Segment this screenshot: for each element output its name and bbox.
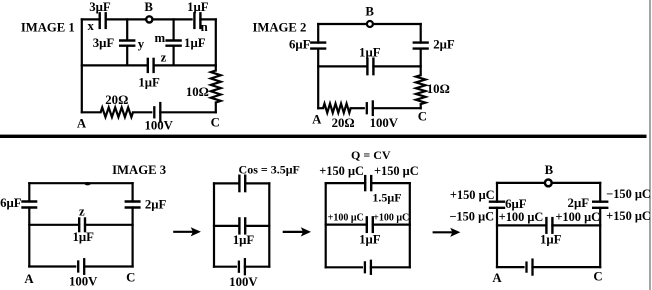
capacitor 6μF (C6 left rail) xyxy=(490,202,504,208)
svg-text:+100 μC: +100 μC xyxy=(499,210,544,224)
wire: I3 middle rail right segment xyxy=(85,224,133,226)
svg-text:Q = CV: Q = CV xyxy=(351,148,391,162)
svg-text:+150 μC: +150 μC xyxy=(319,164,364,178)
wire: I3 top rail xyxy=(29,182,132,184)
wire: I1 branch m lower segment xyxy=(173,46,175,66)
wire: C6 top rail right of node B xyxy=(552,182,600,184)
svg-text:B: B xyxy=(365,5,374,19)
wire: I3 bottom rail from battery to node C xyxy=(84,265,132,267)
capacitor y 3μF (I1 middle-left, horizontal plates) xyxy=(120,41,134,46)
capacitor x 3μF (I1 top-left) xyxy=(100,13,106,28)
svg-text:A: A xyxy=(24,272,34,286)
svg-text:−150 μC: −150 μC xyxy=(449,209,494,223)
wire: C5 bottom rail right segment xyxy=(371,266,410,268)
wire: I2 middle rail right segment xyxy=(373,65,420,67)
wire: C5 middle rail right segment xyxy=(373,224,410,226)
wire: C4 right rail xyxy=(268,183,270,266)
capacitor Cos 3.5μF (C4 top rail) xyxy=(239,176,245,191)
capacitor m 1μF (I1 middle-right, horizontal plates) xyxy=(167,41,181,46)
wire: I2 middle rail left segment xyxy=(318,65,367,67)
svg-text:2μF: 2μF xyxy=(145,197,167,211)
svg-text:C: C xyxy=(593,269,602,283)
wire: I3 right rail upper segment xyxy=(132,183,134,201)
svg-text:1μF: 1μF xyxy=(233,233,255,247)
svg-text:2μF: 2μF xyxy=(433,38,455,52)
svg-text:+150 μC: +150 μC xyxy=(450,188,495,202)
capacitor 1μF (C4 middle rail) xyxy=(239,218,245,233)
capacitor 2μF (C6 right rail) xyxy=(593,202,607,208)
wire: C4 middle rail left segment xyxy=(214,225,239,227)
svg-text:C: C xyxy=(126,270,135,284)
capacitor 2μF (I2 right rail) xyxy=(414,43,428,49)
capacitor z 1μF (I1 middle rail) xyxy=(148,59,154,72)
svg-text:100V: 100V xyxy=(144,118,173,132)
battery (C6 bottom rail) xyxy=(527,260,533,275)
resistor 10Ω (I1 right rail) xyxy=(211,71,221,103)
svg-text:C: C xyxy=(418,110,427,124)
wire: I2 right rail upper segment xyxy=(420,24,422,43)
wire: C4 middle rail right segment xyxy=(245,225,269,227)
svg-text:z: z xyxy=(79,205,85,219)
wire: I1 z rail right segment xyxy=(154,64,216,66)
battery 100V (I2 bottom rail) xyxy=(367,101,373,115)
svg-text:1μF: 1μF xyxy=(187,0,209,14)
wire: I2 top rail right of node B xyxy=(374,23,421,25)
svg-text:B: B xyxy=(545,163,554,177)
wire: C6 right rail lower segment xyxy=(599,208,601,267)
wire: C6 left rail upper segment xyxy=(496,183,498,202)
svg-text:2μF: 2μF xyxy=(568,196,590,210)
svg-text:+150 μC: +150 μC xyxy=(606,209,651,223)
battery (C5 bottom rail) xyxy=(365,261,371,274)
svg-text:A: A xyxy=(492,271,502,285)
svg-text:1μF: 1μF xyxy=(540,233,562,247)
junction dot on I3 top rail xyxy=(85,182,91,185)
wire: C5 bottom rail left segment xyxy=(326,266,362,268)
battery 100V (C4 bottom rail) xyxy=(239,259,245,274)
horizontal separator bar xyxy=(0,135,647,138)
wire: I1 top rail between capacitor x and node B xyxy=(106,18,146,20)
svg-text:A: A xyxy=(77,117,87,131)
svg-text:100V: 100V xyxy=(370,116,399,130)
wire: I1 branch y upper segment xyxy=(126,19,128,40)
svg-text:m: m xyxy=(154,31,165,45)
svg-text:y: y xyxy=(138,37,145,51)
capacitor 1μF (I2 middle rail) xyxy=(367,59,373,75)
wire: I1 top rail right of capacitor n xyxy=(200,18,215,20)
svg-text:+150 μC: +150 μC xyxy=(374,164,419,178)
arrow from charge diagram to final circuit xyxy=(434,228,461,237)
arrow from IMAGE 3 to reduced circuit xyxy=(174,227,201,236)
wire: C4 bottom rail right segment xyxy=(245,266,269,268)
svg-text:IMAGE 2: IMAGE 2 xyxy=(252,20,306,34)
svg-text:B: B xyxy=(144,0,153,14)
wire: C6 left rail lower segment xyxy=(496,208,498,267)
svg-text:1μF: 1μF xyxy=(138,75,160,89)
wire: C5 middle rail left segment xyxy=(326,224,367,226)
svg-text:100V: 100V xyxy=(69,275,98,289)
svg-text:6μF: 6μF xyxy=(289,38,311,52)
svg-text:A: A xyxy=(312,112,322,126)
node B (I1) xyxy=(146,16,152,22)
wire: I1 top rail left of capacitor x xyxy=(82,18,100,20)
capacitor 2μF (I3 right rail) xyxy=(126,202,140,208)
resistor 10Ω (I2 right rail) xyxy=(416,75,426,104)
wire: I2 left rail lower segment xyxy=(317,49,319,109)
svg-text:3μF: 3μF xyxy=(93,36,115,50)
wire: C6 middle rail right segment xyxy=(552,224,600,226)
wire: C5 top rail right segment xyxy=(371,182,410,184)
wire: C4 top rail right segment xyxy=(245,182,269,184)
svg-text:1μF: 1μF xyxy=(184,36,206,50)
wire: I3 left rail lower segment xyxy=(28,208,30,267)
wire: I1 branch m upper segment xyxy=(173,19,175,40)
wire: I1 bottom rail from battery to node C xyxy=(160,111,216,113)
wire: I3 middle rail left segment xyxy=(29,224,79,226)
resistor 20Ω (I2 bottom rail) xyxy=(323,104,351,113)
svg-text:+100 μC: +100 μC xyxy=(555,210,600,224)
wire: I1 left rail (node A up to top rail) xyxy=(81,19,83,112)
wire: C5 top rail left segment xyxy=(326,182,366,184)
svg-text:20Ω: 20Ω xyxy=(105,93,128,107)
wire: I1 branch y lower segment xyxy=(126,46,128,66)
svg-text:1μF: 1μF xyxy=(72,230,94,244)
svg-text:6μF: 6μF xyxy=(0,196,22,210)
wire: I2 right rail between capacitor and resistor xyxy=(420,49,422,76)
wire: I3 bottom rail from node A to battery xyxy=(29,265,75,267)
wire: I1 right rail bottom stub above node C xyxy=(215,103,217,113)
svg-text:Cos = 3.5μF: Cos = 3.5μF xyxy=(239,162,300,176)
svg-text:+100 μC: +100 μC xyxy=(328,213,364,224)
wire: C4 top rail left segment xyxy=(214,182,239,184)
battery 100V (I1 bottom rail) xyxy=(154,103,160,122)
wire: I2 bottom rail from node A to resistor xyxy=(318,107,323,109)
svg-text:6μF: 6μF xyxy=(505,197,527,211)
wire: I1 bottom rail from node A to resistor xyxy=(82,111,101,113)
svg-text:10Ω: 10Ω xyxy=(186,85,209,99)
svg-text:C: C xyxy=(211,116,220,130)
battery 100V (I3 bottom rail) xyxy=(78,259,84,274)
capacitor z 1μF (I3 middle rail) xyxy=(79,219,85,232)
wire: I2 right rail stub above node C xyxy=(420,104,422,108)
svg-text:IMAGE 3: IMAGE 3 xyxy=(112,163,166,177)
svg-text:+100 μC: +100 μC xyxy=(373,213,409,224)
svg-text:−150 μC: −150 μC xyxy=(606,187,651,201)
wire: C6 bottom rail from battery to node C xyxy=(533,266,601,268)
wire: I1 right rail top segment (top rail to z rail) xyxy=(215,19,217,70)
capacitor 6μF (I3 left rail) xyxy=(23,202,37,208)
wire: I1 bottom rail between resistor and battery xyxy=(133,111,151,113)
svg-text:20Ω: 20Ω xyxy=(332,116,355,130)
node B (I2) xyxy=(367,21,373,27)
wire: I1 z rail left segment xyxy=(82,64,148,66)
capacitor 1μF (C5 middle rail) xyxy=(367,217,373,232)
svg-text:IMAGE 1: IMAGE 1 xyxy=(21,20,75,34)
capacitor 6μF (I2 left rail) xyxy=(311,43,325,49)
svg-text:1μF: 1μF xyxy=(359,233,381,247)
wire: C6 middle rail left segment xyxy=(497,224,546,226)
wire: C6 top rail left of node B xyxy=(497,182,545,184)
arrow from reduced circuit to charge diagram xyxy=(284,227,311,236)
wire: I3 left rail upper segment xyxy=(28,183,30,201)
wire: I2 bottom rail between resistor and battery xyxy=(351,107,364,109)
node B (C6) xyxy=(545,180,552,187)
capacitor n 1μF (I1 top-right) xyxy=(194,13,200,28)
svg-text:10Ω: 10Ω xyxy=(427,82,450,96)
svg-text:1μF: 1μF xyxy=(359,45,381,59)
wire: I2 bottom rail from battery to node C xyxy=(373,107,421,109)
capacitor 1μF (C6 middle rail) xyxy=(546,218,552,233)
wire: C5 left rail xyxy=(325,183,327,267)
svg-text:n: n xyxy=(201,20,208,34)
svg-text:x: x xyxy=(87,19,94,33)
wire: I1 top rail between node B and capacitor n xyxy=(153,18,191,20)
wire: I2 left rail upper segment xyxy=(317,24,319,43)
wire: C5 right rail xyxy=(409,183,411,267)
wire: C6 right rail upper segment xyxy=(599,183,601,202)
wire: C6 bottom rail from node A to battery xyxy=(497,266,524,268)
wire: C4 left rail xyxy=(213,183,215,266)
resistor 20Ω (I1 bottom rail) xyxy=(101,108,133,118)
wire: I3 right rail lower segment xyxy=(132,208,134,267)
svg-text:1.5μF: 1.5μF xyxy=(372,191,401,205)
capacitor 1.5μF (C5 top rail) xyxy=(365,176,371,190)
wire: C4 bottom rail left segment xyxy=(214,266,236,268)
wire: I2 top rail left of node B xyxy=(318,23,366,25)
svg-text:100V: 100V xyxy=(229,275,258,289)
svg-text:3μF: 3μF xyxy=(89,0,111,14)
svg-text:z: z xyxy=(161,51,167,65)
right window border line xyxy=(649,0,651,290)
